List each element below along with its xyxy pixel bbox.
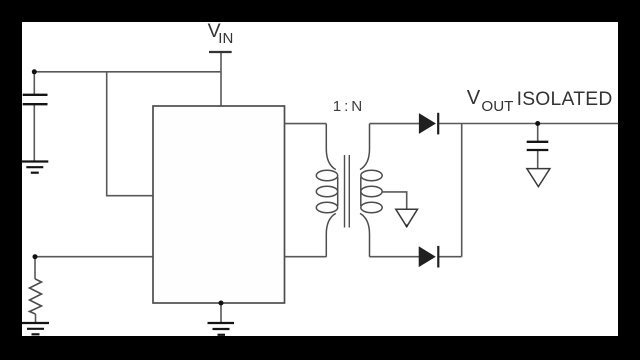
transformer T1 primary winding	[316, 124, 337, 257]
wire center tap	[382, 192, 407, 209]
wire IC right pin1 to primary top	[285, 123, 327, 125]
VIN terminal bar	[209, 51, 232, 53]
ground (input capacitor)	[21, 162, 48, 173]
wire resistor rail to IC left pin	[35, 256, 153, 258]
isolated ground (center tap, open triangle)	[396, 209, 418, 227]
wire input rail horizontal	[34, 71, 221, 73]
wire resistor top lead	[34, 257, 36, 279]
label VOUT ISOLATED	[467, 87, 613, 115]
node D (output junction)	[535, 121, 540, 126]
svg-text:OUT: OUT	[481, 98, 513, 115]
wire VIN vertical to IC top pin	[220, 52, 222, 106]
wire junction to capacitor	[33, 72, 35, 95]
node A (input rail junction)	[32, 69, 37, 74]
node B (resistor rail junction)	[33, 254, 38, 259]
isolated ground (output, open triangle)	[527, 169, 550, 187]
wire IC right pin2 to primary bottom	[285, 256, 327, 258]
wire resistor bottom lead	[35, 314, 37, 323]
transformer T1 core	[345, 155, 350, 228]
label VIN	[208, 20, 234, 47]
node C (IC ground pin)	[219, 301, 224, 306]
diode D2	[419, 246, 438, 268]
transformer T1 secondary winding	[360, 124, 382, 257]
svg-text:ISOLATED: ISOLATED	[517, 89, 613, 110]
svg-text:1:N: 1:N	[333, 98, 365, 115]
converter IC block	[153, 106, 285, 303]
wire D1 cathode to output rail	[438, 123, 618, 125]
svg-text:V: V	[467, 87, 481, 109]
wire D2 cathode to right branch	[438, 256, 461, 258]
svg-text:IN: IN	[218, 30, 233, 47]
resistor R1 zigzag	[30, 279, 42, 314]
diode D1	[419, 113, 438, 135]
wire output capacitor to isolated ground	[537, 151, 539, 169]
output capacitor COUT plates	[527, 142, 549, 150]
wire IC bottom pin to ground	[220, 303, 222, 323]
wire secondary bottom to diode D2 anode	[370, 256, 420, 258]
wire feedback branch down	[107, 72, 153, 196]
ground (IC)	[208, 323, 235, 335]
wire capacitor to ground	[33, 105, 35, 162]
ground (resistor)	[22, 323, 49, 334]
wire output junction to capacitor	[537, 124, 539, 142]
wire right branch vertical	[461, 124, 463, 257]
wire secondary top to diode D1 anode	[370, 123, 420, 125]
capacitor CIN plates	[23, 95, 48, 104]
